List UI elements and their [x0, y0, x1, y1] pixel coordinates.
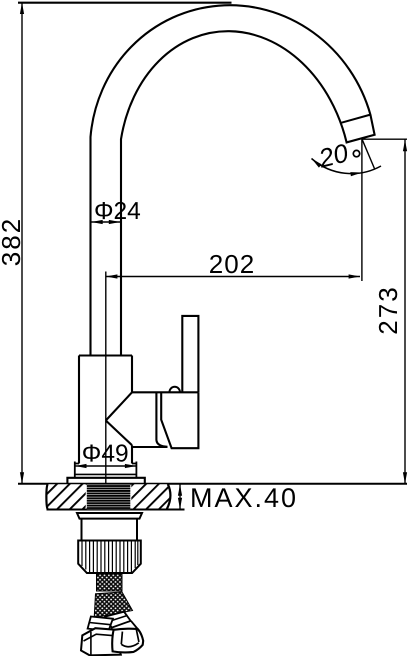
arrow MAX.40 up	[178, 484, 182, 496]
svg-text:MAX.40: MAX.40	[190, 483, 298, 513]
counter slab right hatched part	[131, 484, 170, 509]
counter slab right edge	[167, 484, 171, 510]
right nut facet line right	[136, 629, 139, 642]
faucet body left edge	[78, 356, 80, 464]
dimension 202 line	[106, 276, 360, 278]
arrow phi24 right	[109, 220, 121, 224]
arrow phi24 left	[91, 220, 103, 224]
cartridge housing	[161, 392, 198, 448]
svg-text:382: 382	[0, 217, 26, 266]
arrow MAX.40 down	[178, 498, 182, 510]
arrow 273 bottom	[403, 472, 407, 484]
washer under counter	[77, 513, 142, 519]
right hose ferrule	[105, 612, 131, 628]
extension line / centerline from 202 to body vertex	[105, 272, 107, 485]
body cone lower diagonal	[106, 421, 132, 446]
dimension 382 vertical line	[21, 3, 23, 484]
right nut body	[112, 629, 143, 653]
link line V to collar	[132, 446, 168, 448]
spout tip seam line	[342, 115, 371, 123]
mounting nut body	[78, 541, 141, 574]
handle lever	[182, 316, 198, 392]
counter slab left edge	[46, 484, 47, 510]
body cone upper diagonal	[106, 392, 132, 420]
angle leg at 20 degrees from vertical	[362, 139, 375, 169]
base flange	[67, 478, 144, 484]
top extension line	[18, 2, 232, 4]
right nut facet line left	[121, 632, 122, 645]
dome on housing	[169, 387, 179, 392]
countertop surface line	[18, 483, 407, 485]
right nut shoulder edge	[131, 621, 138, 629]
supply hose lower braided section	[94, 592, 132, 618]
left hose ferrule	[88, 617, 113, 631]
escutcheon left side / phi49 extension	[74, 462, 76, 478]
arrow phi49 left	[75, 464, 87, 468]
escutcheon step right	[132, 463, 136, 465]
angle dimension arc	[312, 159, 382, 174]
faucet body right edge upper	[131, 356, 133, 393]
degree circle	[353, 150, 359, 156]
angle arc arrowhead right	[350, 172, 362, 176]
mounting nut knurling	[82, 541, 138, 573]
arrow phi49 right	[125, 464, 136, 468]
svg-text:Φ24: Φ24	[94, 198, 141, 225]
threaded shank	[87, 485, 131, 510]
left hex nut facet line	[90, 632, 92, 656]
right ferrule band line	[107, 615, 128, 622]
shank collar cylinder	[82, 519, 138, 541]
faucet body top	[79, 354, 132, 356]
right nut bottom chamfer arc	[121, 643, 139, 647]
angle arc arrowhead left	[312, 159, 322, 168]
arrow 382 bottom	[20, 472, 24, 484]
counter slab left hatched part	[48, 484, 86, 509]
svg-text:Φ49: Φ49	[82, 441, 129, 468]
supply hose upper braided section	[97, 574, 123, 591]
arrow 382 top	[20, 3, 24, 15]
arrow 273 top	[403, 140, 407, 152]
joint top line body to lever	[132, 391, 198, 393]
dimension phi49 line	[75, 465, 136, 467]
tip vertical extension line	[361, 139, 363, 281]
left hex nut	[81, 628, 121, 655]
dimension 273 vertical line	[404, 140, 406, 484]
counter slab bottom line	[47, 509, 185, 511]
escutcheon step left	[75, 463, 79, 465]
escutcheon right side / phi49 extension	[135, 462, 137, 478]
arrow 202 right	[349, 274, 361, 278]
faucet body right edge lower	[131, 445, 133, 463]
left ferrule band line	[89, 623, 110, 625]
dimension MAX.40 arrows	[179, 484, 181, 510]
tip horizontal extension line	[362, 138, 407, 140]
svg-text:273: 273	[373, 285, 403, 334]
left hex nut top face line	[84, 634, 113, 641]
joint collar line	[156, 392, 167, 447]
svg-text:202: 202	[209, 249, 255, 279]
escutcheon bottom ring line	[75, 473, 137, 475]
spout tube outline	[91, 5, 375, 355]
arrow 202 left	[106, 274, 118, 278]
dimension phi24 line	[91, 221, 121, 223]
